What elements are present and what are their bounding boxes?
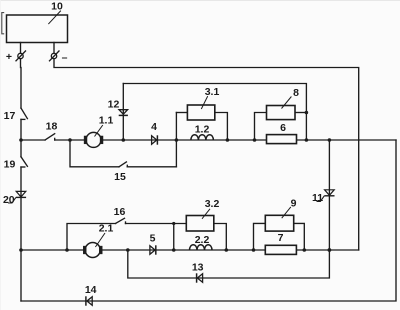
svg-text:18: 18 <box>46 120 58 132</box>
svg-text:17: 17 <box>4 110 16 122</box>
svg-text:14: 14 <box>85 284 97 296</box>
svg-text:2.1: 2.1 <box>99 223 114 235</box>
svg-text:2.2: 2.2 <box>195 234 210 246</box>
svg-text:+: + <box>6 51 12 63</box>
svg-text:3.1: 3.1 <box>205 86 220 98</box>
svg-text:12: 12 <box>108 99 120 111</box>
svg-text:16: 16 <box>114 206 126 218</box>
svg-text:4: 4 <box>151 121 157 133</box>
svg-text:1.1: 1.1 <box>99 115 114 127</box>
svg-text:–: – <box>62 52 68 64</box>
svg-text:19: 19 <box>4 159 16 171</box>
svg-text:1.2: 1.2 <box>195 124 210 136</box>
svg-text:13: 13 <box>192 262 204 274</box>
svg-text:5: 5 <box>150 233 156 245</box>
svg-text:20: 20 <box>3 194 15 206</box>
svg-text:7: 7 <box>278 232 284 244</box>
svg-text:9: 9 <box>291 198 297 210</box>
svg-text:11: 11 <box>312 192 323 204</box>
svg-text:10: 10 <box>51 1 63 13</box>
svg-text:3.2: 3.2 <box>205 198 220 210</box>
svg-text:6: 6 <box>280 122 286 134</box>
svg-text:15: 15 <box>114 171 126 183</box>
svg-text:8: 8 <box>293 87 299 99</box>
